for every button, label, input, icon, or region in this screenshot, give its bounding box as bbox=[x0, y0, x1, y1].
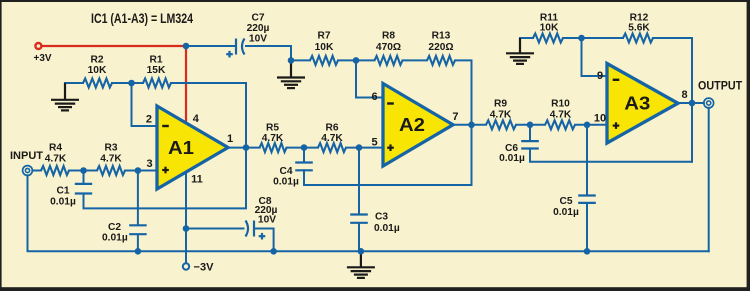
svg-text:4.7K: 4.7K bbox=[45, 153, 67, 164]
svg-text:R5: R5 bbox=[266, 123, 279, 134]
svg-text:11: 11 bbox=[191, 174, 203, 186]
svg-text:8: 8 bbox=[682, 89, 688, 101]
svg-text:0.01µ: 0.01µ bbox=[102, 232, 128, 243]
svg-text:R3: R3 bbox=[104, 142, 117, 153]
svg-text:10K: 10K bbox=[315, 42, 334, 53]
svg-text:R8: R8 bbox=[382, 31, 395, 42]
svg-text:9: 9 bbox=[597, 70, 603, 82]
svg-text:6: 6 bbox=[372, 91, 378, 103]
svg-text:4.7K: 4.7K bbox=[550, 109, 572, 120]
svg-text:5.6K: 5.6K bbox=[628, 23, 650, 34]
svg-text:C5: C5 bbox=[559, 196, 572, 207]
svg-text:C7: C7 bbox=[251, 13, 264, 24]
svg-text:R6: R6 bbox=[325, 123, 338, 134]
svg-text:10V: 10V bbox=[249, 33, 267, 44]
svg-text:7: 7 bbox=[452, 111, 458, 123]
svg-text:0.01µ: 0.01µ bbox=[499, 153, 525, 164]
svg-text:R13: R13 bbox=[432, 31, 451, 42]
svg-text:15K: 15K bbox=[147, 65, 166, 76]
svg-text:R4: R4 bbox=[49, 142, 62, 153]
svg-text:10: 10 bbox=[594, 113, 606, 125]
svg-text:470Ω: 470Ω bbox=[376, 42, 401, 53]
svg-text:10V: 10V bbox=[258, 214, 276, 225]
svg-text:OUTPUT: OUTPUT bbox=[698, 78, 743, 92]
svg-text:R9: R9 bbox=[494, 99, 507, 110]
svg-text:R1: R1 bbox=[149, 55, 162, 66]
svg-text:0.01µ: 0.01µ bbox=[273, 176, 299, 187]
svg-text:R7: R7 bbox=[317, 31, 330, 42]
svg-text:220Ω: 220Ω bbox=[428, 42, 453, 53]
svg-text:−3V: −3V bbox=[194, 261, 215, 273]
svg-text:4.7K: 4.7K bbox=[100, 153, 122, 164]
svg-text:C3: C3 bbox=[375, 212, 388, 223]
svg-text:C2: C2 bbox=[108, 222, 121, 233]
svg-text:A2: A2 bbox=[399, 115, 425, 135]
svg-text:C1: C1 bbox=[56, 186, 69, 197]
svg-text:4: 4 bbox=[193, 113, 200, 125]
svg-text:0.01µ: 0.01µ bbox=[50, 196, 76, 207]
svg-text:+3V: +3V bbox=[34, 52, 52, 64]
svg-text:10K: 10K bbox=[540, 23, 559, 34]
svg-text:A3: A3 bbox=[624, 93, 650, 113]
svg-text:5: 5 bbox=[372, 137, 378, 149]
svg-text:A1: A1 bbox=[168, 138, 194, 158]
svg-text:0.01µ: 0.01µ bbox=[553, 207, 579, 218]
svg-text:2: 2 bbox=[146, 114, 152, 126]
svg-text:R10: R10 bbox=[551, 99, 570, 110]
svg-text:IC1 (A1-A3) = LM324: IC1 (A1-A3) = LM324 bbox=[91, 11, 193, 26]
svg-text:10K: 10K bbox=[88, 65, 107, 76]
svg-text:0.01µ: 0.01µ bbox=[374, 223, 400, 234]
svg-text:4.7K: 4.7K bbox=[262, 133, 284, 144]
svg-text:R2: R2 bbox=[90, 55, 103, 66]
svg-text:INPUT: INPUT bbox=[10, 150, 43, 162]
svg-text:4.7K: 4.7K bbox=[490, 109, 512, 120]
svg-text:1: 1 bbox=[227, 133, 233, 145]
svg-text:4.7K: 4.7K bbox=[321, 133, 343, 144]
svg-text:3: 3 bbox=[146, 158, 152, 170]
